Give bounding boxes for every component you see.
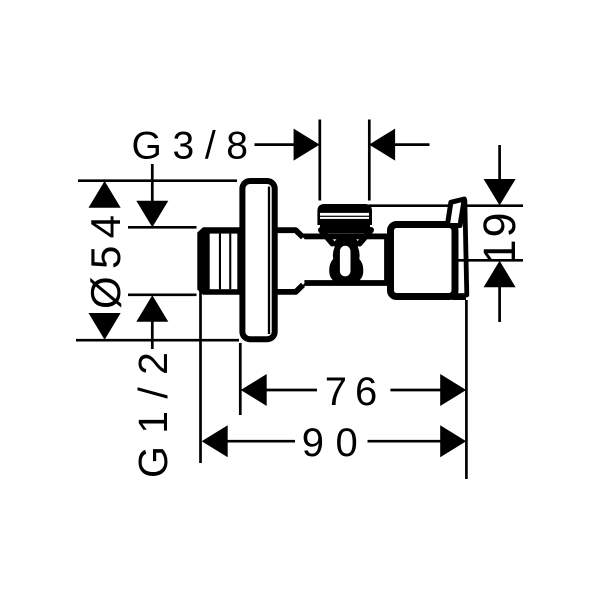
- valve: lever flag: [447, 199, 464, 226]
- G3/8 dimension left tail line: [255, 143, 296, 146]
- svg-text:G3/8: G3/8: [132, 125, 249, 168]
- valve: neck bottom edge with chamfer: [275, 285, 303, 292]
- valve: spindle keyhole inner slot: [340, 246, 351, 277]
- valve: right wing white slit: [358, 236, 368, 246]
- leader arrowhead G1/2 (up): [136, 295, 168, 322]
- valve: neck white interior: [278, 230, 305, 292]
- valve: flange inner edge line: [268, 187, 270, 335]
- dimension 76: right arrowhead (points right): [440, 374, 466, 406]
- G3/8 dimension right arrowhead (points left): [369, 129, 395, 161]
- dimension: Ø54 bottom extension line: [76, 339, 239, 342]
- valve: right wing fillet: [360, 230, 372, 244]
- dimension 19: bottom extension line: [458, 259, 523, 262]
- leader line from G3/8 down: [151, 164, 154, 202]
- valve: cap white stripe 2: [320, 217, 369, 219]
- valve: left wing fillet: [321, 230, 333, 244]
- valve: bonnet cap lower step: [320, 225, 370, 234]
- svg-text:Ø54: Ø54: [82, 215, 129, 309]
- dimension 90: left extension line: [199, 291, 202, 463]
- valve: thread line 2: [229, 234, 231, 290]
- leader arrowhead G3/8 (down): [136, 201, 168, 228]
- dimension 76: left segment: [266, 389, 317, 392]
- dimension 76: left extension line: [239, 343, 242, 415]
- G3/8 dimension left arrowhead (points right): [294, 129, 320, 161]
- valve: neck top edge with chamfer: [275, 230, 303, 237]
- dimension 90: right arrowhead (points right): [440, 425, 466, 457]
- dimension 76/90: right shared extension line: [465, 300, 468, 479]
- dimension 90: left arrowhead (points left): [202, 425, 228, 457]
- dimension 19: lower arrowhead (up): [484, 261, 516, 288]
- valve: thread line 1: [219, 234, 221, 290]
- valve: lever edge slant line: [465, 200, 467, 295]
- dimension: Ø54 upper arrowhead: [89, 181, 121, 208]
- G3/8 dimension left extension line: [318, 120, 321, 201]
- dimension 76: right segment: [390, 389, 441, 392]
- valve: flange (rosette): [242, 181, 274, 339]
- G3/8 dimension right tail line: [394, 143, 430, 146]
- extension line: thread bottom: [128, 293, 197, 296]
- dimension 19: upper arrowhead (down): [484, 179, 516, 205]
- svg-text:G1/2: G1/2: [130, 352, 176, 478]
- leader line from G1/2 up: [151, 321, 154, 349]
- dimension: Ø54 top extension line: [78, 179, 237, 182]
- valve: handle block: [391, 225, 456, 297]
- dimension 90: right segment: [368, 440, 442, 443]
- valve: cap white stripe 1: [320, 213, 369, 216]
- valve: handle bottom-right corner patch: [452, 293, 466, 300]
- extension line: thread top: [128, 226, 197, 229]
- dimension 90: left segment: [227, 440, 295, 443]
- svg-text:1: 1: [474, 239, 525, 264]
- G3/8 dimension right extension line: [368, 120, 371, 201]
- dimension 19: top extension line: [369, 204, 523, 207]
- valve: wall thread outer block: [197, 227, 240, 294]
- svg-text:9: 9: [474, 212, 525, 237]
- valve: spindle keyhole outer: [329, 239, 363, 284]
- dimension 76: left arrowhead (points left): [241, 374, 267, 406]
- dimension 19: lower dim line: [498, 287, 501, 323]
- dimension 19: upper dim line: [498, 145, 501, 181]
- valve: left wing white slit: [324, 236, 334, 246]
- dimension: Ø54 lower arrowhead: [89, 313, 121, 340]
- valve: bonnet cap (black): [317, 204, 372, 225]
- valve: main body tube: [301, 236, 387, 283]
- valve: wall thread white core: [210, 234, 238, 290]
